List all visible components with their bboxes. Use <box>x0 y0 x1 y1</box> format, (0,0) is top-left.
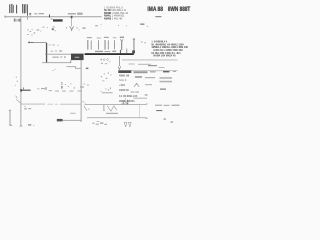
svg-text:+4N1: +4N1 <box>119 84 125 87</box>
svg-text:8WN 888T: 8WN 888T <box>168 6 191 13</box>
svg-text:1N4M 48: 1N4M 48 <box>119 89 129 92</box>
connector J1 pin strokes <box>9 4 13 13</box>
bottom right dash <box>156 110 162 111</box>
bracket terminal right <box>37 87 47 90</box>
terminal strip TB1 (dark) <box>53 19 63 21</box>
wire: shelf outline <box>66 66 88 69</box>
svg-text:IMA 88: IMA 88 <box>147 6 163 13</box>
probe unit box bottom edge <box>131 69 178 72</box>
probe vertical with arrow <box>118 56 121 70</box>
labels right of breaker <box>49 45 63 52</box>
ground G1 <box>124 122 127 127</box>
component F2 fuse <box>97 38 101 50</box>
dashes inside probe box <box>129 64 165 69</box>
svg-text:4NM1 N8: 4NM1 N8 <box>119 75 130 78</box>
component F1 fuse pair <box>87 37 92 50</box>
wire: top feeder bus horizontal <box>5 15 102 17</box>
row C labels <box>119 80 127 82</box>
relay K2 cluster <box>61 82 84 89</box>
terminal E1 dark blob <box>57 119 81 122</box>
junction stub on bus <box>20 88 30 92</box>
label below junction <box>24 106 31 110</box>
label W1 above wire <box>29 13 44 15</box>
component F5 with arrow head <box>120 37 127 54</box>
relay K1 contact cluster <box>27 29 41 36</box>
bus bottom terminus <box>20 124 35 126</box>
legend text block <box>104 6 129 20</box>
ground post left <box>9 110 12 126</box>
diagonal tick <box>16 96 18 99</box>
row G labels <box>119 100 135 105</box>
switch S4 cluster <box>101 72 112 81</box>
row F labels with underline <box>119 94 147 98</box>
wire: stub below breaker <box>42 60 71 63</box>
wire: left stub at y113 <box>70 112 76 115</box>
specks right of F5 <box>141 41 146 43</box>
probe unit box top edge <box>122 59 178 62</box>
row B labels <box>119 75 155 79</box>
stamp S1 <box>147 6 163 13</box>
ground G2 <box>128 122 131 127</box>
wire: mid bus left segment <box>45 53 71 56</box>
scattered specks row <box>42 23 144 28</box>
resistor R1 with leads <box>101 87 113 93</box>
label row above dark bus <box>52 51 116 59</box>
dashed row under relay <box>49 90 82 91</box>
switch S3 <box>28 42 33 44</box>
bottom right faint row <box>155 105 180 106</box>
component F3 fuse pair <box>104 37 109 50</box>
svg-text:NHM4 1N4 MN14 48: NHM4 1N4 MN14 48 <box>153 55 176 58</box>
paper background <box>0 0 200 141</box>
specks above relay <box>52 69 89 86</box>
right faint text rows <box>160 77 173 82</box>
wire: dark heavy bus <box>85 53 134 55</box>
component F4 fuse <box>113 37 117 49</box>
wire tick marks near feeder top <box>83 101 90 111</box>
main vertical bus <box>20 17 23 126</box>
label under diode <box>106 113 118 114</box>
arrow terminator A1 <box>66 26 86 31</box>
notes text block <box>151 41 188 58</box>
right margin specks <box>145 94 173 122</box>
node tick on dark bus <box>120 50 121 54</box>
svg-text:NMN8 1 4NL 4N: NMN8 1 4NL 4N <box>104 17 122 20</box>
wire: vertical feeder to lower bus <box>80 60 83 122</box>
terminal block TB2 (dark) <box>71 54 84 61</box>
wire to breaker <box>34 41 47 44</box>
label W2 above wire <box>68 13 83 15</box>
coil L1 circles <box>101 59 111 65</box>
node tick T2 on bus <box>49 14 52 19</box>
row E labels <box>119 88 166 94</box>
link vertical between lines <box>138 105 141 118</box>
wire: lower long line 1 <box>85 103 147 106</box>
connector J2 pin stroke <box>15 5 18 14</box>
svg-text:4N1 NM: 4N1 NM <box>131 92 140 94</box>
transformer N marks <box>123 98 131 104</box>
diagonal into junction <box>16 99 21 103</box>
label below wire left <box>14 19 21 22</box>
node speck <box>52 28 56 31</box>
svg-text:0.1 4N 84NL1 84: 0.1 4N 84NL1 84 <box>119 95 138 98</box>
svg-text:N41L 8: N41L 8 <box>119 80 127 82</box>
antenna lead vertical with foot <box>132 38 135 53</box>
row A labels (dark) <box>118 70 176 73</box>
wire: lower dashed feeder <box>21 103 81 106</box>
node tick T1 <box>26 17 29 19</box>
wire drop at node B <box>71 16 73 27</box>
diode D1 zigzag <box>103 105 117 112</box>
stamp underline dash <box>147 16 162 26</box>
wire: lower long line 2 <box>87 116 147 119</box>
stamp S2 <box>168 6 191 13</box>
breaker CB1 thick drop <box>46 43 47 63</box>
label bottom mid <box>92 121 107 125</box>
left small specks <box>15 77 18 86</box>
connector J3 pin strokes <box>22 4 28 16</box>
row D labels and symbol <box>119 83 152 87</box>
